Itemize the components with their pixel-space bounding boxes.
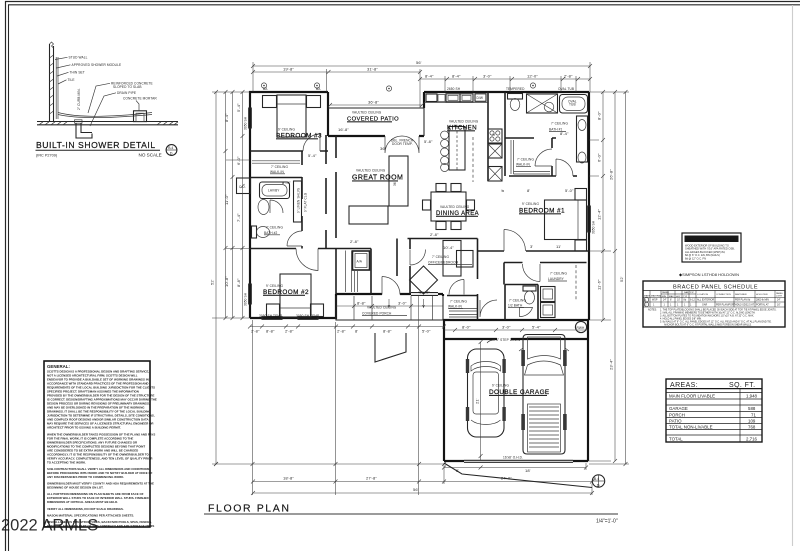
svg-text:BRACED WALL SCHEDULE: BRACED WALL SCHEDULE [686,238,736,242]
bath2 tub [260,182,290,199]
svg-text:8'-4": 8'-4" [452,74,461,79]
svg-text:8'-8": 8'-8" [357,301,366,306]
door arc laundry [523,264,541,282]
kitchen stools [441,131,449,172]
svg-text:VAULTED CEILING: VAULTED CEILING [356,169,386,173]
svg-text:THIN SET: THIN SET [70,71,85,75]
svg-text:21': 21' [475,398,480,404]
svg-text:PANEL: PANEL [662,291,670,294]
room label walkin1 [516,158,534,167]
dim left col mid [224,90,235,320]
svg-text:3'-0": 3'-0" [398,301,407,306]
label french door [391,139,414,146]
interior hall west wall [325,135,327,249]
svg-text:10'-8": 10'-8" [224,276,229,287]
office east wall [477,239,479,321]
svg-text:9' LINEN SHLVS: 9' LINEN SHLVS [297,188,301,213]
garage suv [466,349,506,437]
svg-text:3': 3' [530,244,533,249]
svg-text:8'-0": 8'-0" [597,111,602,120]
svg-text:ARCHITECT PRIOR TO ISSUING A B: ARCHITECT PRIOR TO ISSUING A BUILDING PE… [47,426,121,430]
french door arcs [385,136,419,153]
svg-text:WALK-IN: WALK-IN [448,305,462,309]
svg-text:8': 8' [527,188,530,193]
halfbath toilet [523,286,536,304]
svg-text:1/4"=1'-0": 1/4"=1'-0" [596,519,618,525]
door arc office [410,250,426,266]
svg-text:LOCATION: LOCATION [697,293,708,296]
svg-text:BRACED PANEL SCHEDULE: BRACED PANEL SCHEDULE [673,285,758,291]
svg-text:HOLDOWN: HOLDOWN [756,294,768,296]
bed bedroom3 [263,95,321,137]
office walkin wall [447,295,478,297]
svg-text:16'-8": 16'-8" [338,127,349,132]
svg-text:8'-4": 8'-4" [224,113,229,122]
driveway slope line [444,463,592,488]
svg-text:OVAL TUB: OVAL TUB [558,87,574,91]
office furniture rects [443,241,473,277]
room label garage [489,384,550,397]
dim row top overall [251,60,592,68]
office north wall [408,238,478,240]
kitchen sink [446,94,473,102]
svg-text:31'-8": 31'-8" [367,67,378,72]
svg-text:ANCHOR BOLTS AT 6" O.C. AT POR: ANCHOR BOLTS AT 6" O.C. AT PORTAL WALLS … [664,324,752,327]
kitchen dw [475,94,486,102]
svg-text:GAR: GAR [702,303,707,306]
svg-text:NAIL TOP: NAIL TOP [684,291,694,294]
garage interior dim [475,340,483,460]
svg-text:3'-0": 3'-0" [502,325,511,330]
svg-text:7' CEILING: 7' CEILING [271,165,288,169]
wall bedroom1 south [478,250,590,252]
svg-text:1/2 BATH: 1/2 BATH [508,304,523,308]
svg-text:7'-4": 7'-4" [236,213,241,222]
svg-text:7' CEILING: 7' CEILING [509,299,526,303]
svg-text:10': 10' [677,299,681,302]
svg-text:56': 56' [416,60,422,65]
door arc hall-porch [382,277,400,295]
svg-text:LGTH: LGTH [776,296,782,298]
svg-text:71: 71 [751,412,756,417]
room label bedroom3 [276,128,322,140]
dim row top third [418,74,592,82]
svg-text:BA: BA [263,87,268,91]
exterior wall kitchen top [424,91,589,93]
svg-text:18'-8": 18'-8" [283,476,294,481]
dim row top second [251,67,422,75]
svg-text:PANEL: PANEL [776,292,784,295]
svg-text:VAULTED CEILING: VAULTED CEILING [367,306,397,310]
window west wall upper [249,108,252,304]
svg-text:PATIO: PATIO [669,418,682,423]
dim bottom first row [214,462,446,466]
room label bath2 [264,226,283,235]
svg-text:PER PLAN/PORT: PER PLAN/PORT [716,303,736,306]
great room media wall [389,156,408,206]
shower detail stud wall [50,42,54,122]
svg-text:8'-4": 8'-4" [282,180,291,185]
room label bedroom1 [519,202,565,215]
svg-text:(IRC P2709): (IRC P2709) [36,154,58,158]
dim garage side row [444,325,589,333]
shower detail title [36,140,162,158]
svg-text:7' CEILING: 7' CEILING [550,272,567,276]
rwh water heater [575,321,586,332]
shower detail pan slope [58,113,152,118]
svg-text:5'-4": 5'-4" [308,153,317,158]
svg-text:11'-0": 11'-0" [224,194,229,205]
svg-text:2'-8": 2'-8" [350,239,359,244]
svg-text:BUILT-IN SHOWER DETAIL: BUILT-IN SHOWER DETAIL [36,140,156,150]
window bedroom2 south [262,317,318,320]
exterior wall east [588,92,590,320]
room label bedroom2 [263,284,309,296]
svg-text:FASTENER: FASTENER [735,293,747,296]
door arc bedroom2 [296,249,318,271]
svg-text:23'-4": 23'-4" [609,359,614,370]
svg-text:7' CEILING: 7' CEILING [517,158,534,162]
svg-text:CONNECTION: CONNECTION [716,294,731,296]
wall bedroom1 north [573,175,577,177]
dim left col inner [236,90,245,320]
svg-text:OFFICE/BEDROOM: OFFICE/BEDROOM [428,261,459,265]
svg-text:8': 8' [500,189,505,192]
exterior wall west and bedroom3 top [250,92,328,318]
svg-text:HDU2-SDS2.5 AT: HDU2-SDS2.5 AT [735,303,754,306]
svg-text:A/A: A/A [357,260,363,264]
svg-text:56': 56' [413,487,419,492]
office chair diamond [410,266,438,294]
patio dim line [328,100,424,108]
svg-text:2800 lb MIN: 2800 lb MIN [756,299,769,302]
closet column east wall [301,151,303,249]
interior wall bedroom2 north [250,249,371,295]
svg-text:8'-8": 8'-8" [236,278,241,287]
window notes [244,87,596,318]
shower detail curb [134,111,147,122]
svg-text:VAULTED CEILING: VAULTED CEILING [440,205,470,209]
washer dryer [541,287,556,318]
svg-text:3050 SH TEMP: 3050 SH TEMP [296,314,319,318]
wall bath1 south walkin north [505,138,556,176]
braced panel schedule table [643,281,785,327]
svg-text:5'-4": 5'-4" [532,325,541,330]
dim bottom garage row [442,466,588,474]
dim right col mid [609,90,618,463]
interior wall bedroom3 south [250,150,328,152]
svg-text:10'-4": 10'-4" [443,245,454,250]
dim left col outer [210,90,219,466]
svg-text:12'-0": 12'-0" [527,74,538,79]
wall behind patio with french door gap [328,135,424,137]
bed bedroom2 [267,274,324,317]
svg-text:VAULTED CEILING: VAULTED CEILING [449,120,479,124]
dim bottom overall row [251,487,594,495]
svg-text:3050 SH: 3050 SH [244,292,248,306]
garage door line [464,460,573,462]
sliding door segment [411,293,438,296]
dim row below south wall [248,325,446,334]
svg-text:11': 11' [556,244,561,249]
svg-text:ANY DISCREPANCIES PRIOR TO COM: ANY DISCREPANCIES PRIOR TO COMMENCING WO… [47,475,124,479]
bath1 toilet [508,94,523,111]
svg-text:26'-8": 26'-8" [609,169,614,180]
svg-text:TUB: TUB [569,103,576,107]
kitchen oven [488,144,502,158]
wall kitchen west jog [423,92,425,108]
svg-text:NO SCALE: NO SCALE [139,153,162,158]
kitchen island [449,127,465,171]
walkin3 shelves [252,161,300,163]
room label kitchen [447,120,479,132]
garage walls [444,320,588,461]
room label laundry [548,272,567,282]
svg-text:WSP: WSP [652,299,658,302]
svg-text:12'-4": 12'-4" [597,209,602,220]
walkin1 walls [509,138,556,176]
door arc bath2 [270,200,283,213]
wall patio left connector [327,92,329,136]
door arc bedroom1 [504,230,526,252]
wall hall vertical [396,239,398,277]
svg-text:9' CEILING: 9' CEILING [278,128,295,132]
svg-text:PER PLAN 8d: PER PLAN 8d [735,299,751,302]
svg-text:BA: BA [316,87,321,91]
linen closet [294,181,302,222]
areas table [666,379,762,442]
svg-text:7' CEILING: 7' CEILING [432,255,449,259]
room label covered patio [347,111,399,123]
svg-text:MIN: MIN [662,296,666,298]
window markers top wall [261,83,535,91]
walkin1 shelves [511,140,550,174]
kitchen cooktop [488,129,502,143]
svg-text:6-12: 6-12 [690,299,695,302]
porch posts [354,296,433,320]
svg-text:MATERIAL: MATERIAL [651,295,663,298]
door arc office walkin [449,280,464,295]
shower detail bubble [166,145,177,156]
svg-text:2'-8": 2'-8" [285,329,294,334]
office west wall [409,239,411,295]
dim left extension lines [212,92,250,464]
exterior wall porch back [336,293,411,295]
shower detail leader labels [55,56,157,127]
svg-text:588: 588 [748,406,756,411]
svg-text:LAV/BY: LAV/BY [268,189,280,193]
svg-text:9' FLAT CLG: 9' FLAT CLG [304,192,308,212]
svg-text:16'x8' O.H.D.: 16'x8' O.H.D. [503,456,523,460]
svg-text:2'-8": 2'-8" [430,232,439,237]
svg-text:MAX: MAX [669,295,674,298]
hall closet shelves [346,251,358,293]
dim right col inner [597,90,606,322]
room label walkin3 [270,165,288,174]
shower detail drain and p-trap [75,120,93,138]
svg-text:2650 SH: 2650 SH [447,87,461,91]
svg-text:TILE: TILE [68,78,75,82]
svg-text:AREAS:: AREAS: [670,382,698,389]
svg-text:6'-0": 6'-0" [597,153,602,162]
svg-text:8': 8' [355,329,358,334]
exterior wall bottom bedroom2 [250,294,336,318]
svg-text:5'-4": 5'-4" [236,103,241,112]
svg-text:2,716: 2,716 [746,437,758,442]
exterior wall office block [438,294,589,320]
svg-text:52': 52' [619,276,624,282]
svg-text:DRAIN PIPE: DRAIN PIPE [117,91,136,95]
bath2 toilet [252,226,270,238]
bath2 sink [258,200,269,215]
laundry north wall [504,263,587,285]
svg-text:36": 36" [380,146,387,151]
room label office walkin [448,300,467,309]
svg-text:2'-8": 2'-8" [564,74,573,79]
wall kitchen-bath divider [504,92,506,138]
svg-text:2022 ARMLS: 2022 ARMLS [1,517,98,535]
driveway step polygon [375,333,406,362]
svg-text:APPROVED SHOWER MODULE: APPROVED SHOWER MODULE [72,63,122,67]
svg-text:3050 SH TEMP: 3050 SH TEMP [259,314,282,318]
room label great room [352,169,403,182]
svg-text:WALK-IN: WALK-IN [516,163,530,167]
svg-text:8'-8": 8'-8" [266,329,275,334]
svg-text:52': 52' [210,279,215,285]
bath1 tub [560,95,588,114]
door arc bedroom1 entry [556,159,573,176]
cu unit [237,178,251,194]
svg-text:9' CEILING: 9' CEILING [492,384,509,388]
svg-text:TOTAL NON-LIVABLE: TOTAL NON-LIVABLE [669,424,713,429]
bath1 shower [527,94,558,113]
porch swing arrows [388,299,425,308]
svg-text:768: 768 [748,424,756,429]
room label covered porch [362,306,407,316]
svg-text:9' CEILING: 9' CEILING [266,284,283,288]
covered porch outline [336,296,443,320]
svg-text:D/W: D/W [477,96,484,100]
svg-text:5': 5' [491,133,496,136]
kitchen corner cabinets [426,94,445,102]
svg-text:RWH: RWH [577,326,585,330]
general notes box [44,361,157,528]
room label office [428,255,472,265]
dim right col outer [619,90,628,466]
svg-text:2" CURB MIN.: 2" CURB MIN. [77,88,81,110]
interior small dims [282,127,574,250]
svg-text:TEMPERED: TEMPERED [506,87,525,91]
door arc bedroom3 [303,134,320,151]
office walkin shelves [449,309,477,318]
svg-text:D: D [597,482,600,487]
svg-text:MAIN FLOOR LIVABLE: MAIN FLOOR LIVABLE [669,394,715,399]
wall kitchen east [487,92,489,181]
svg-text:8'-4": 8'-4" [425,74,434,79]
halfbath sink [520,308,533,317]
shower detail tile layer [56,57,58,119]
door arc walkin1 [535,149,552,166]
dining ceiling break dashed [472,137,474,182]
shower detail slab [37,122,178,125]
dim right extension lines [588,92,629,464]
svg-text:36: 36 [393,182,397,186]
interior wall walkin3 south [250,177,302,179]
svg-text:7' CEILING: 7' CEILING [266,226,283,230]
garage truck [519,335,569,455]
svg-text:7' CEILING: 7' CEILING [450,300,467,304]
svg-text:GARAGE: GARAGE [669,406,688,411]
svg-text:11'-6": 11'-6" [597,279,602,290]
braced wall notes box [682,233,741,262]
great room rug [349,206,388,224]
kitchen top counter [424,102,488,104]
svg-text:B.4: B.4 [594,477,599,481]
svg-text:4" STEP DOWN: 4" STEP DOWN [496,338,521,342]
svg-text:BEGINNING OF HOUSE DESIGN ON L: BEGINNING OF HOUSE DESIGN ON LOT. [47,486,104,490]
svg-text:WALK-IN: WALK-IN [270,170,284,174]
svg-text:DIMENSIONS AT CRITICAL AREAS M: DIMENSIONS AT CRITICAL AREAS MUST BE HEL… [47,500,118,504]
section bubble bottom right [592,475,604,488]
svg-text:FLOOR PLAN: FLOOR PLAN [208,503,291,515]
porch dim row [336,301,443,309]
svg-text:8'-0": 8'-0" [462,325,471,330]
svg-text:VAULTED CEILING: VAULTED CEILING [352,111,382,115]
svg-text:COVERED PORCH: COVERED PORCH [362,312,392,316]
room label halfbath [508,299,526,308]
svg-text:19'-8": 19'-8" [283,67,294,72]
window bedroom1 east [588,206,591,232]
svg-text:PORCH: PORCH [669,412,685,417]
svg-text:◆SIMPSON LSTHD8 HOLDOWN: ◆SIMPSON LSTHD8 HOLDOWN [679,272,739,277]
svg-text:MARK: MARK [644,295,651,298]
dim bottom extension lines [253,296,593,495]
svg-text:8'-4": 8'-4" [560,131,569,136]
svg-text:VERIFY ALL DIMENSIONS, DO NOT: VERIFY ALL DIMENSIONS, DO NOT SCALE DRAW… [47,507,124,511]
svg-text:TOTAL: TOTAL [669,437,683,442]
step down note [487,338,521,343]
svg-text:TYP: TYP [683,296,688,298]
room label dining [436,205,479,217]
svg-text:TO ACCEPTING THE WORK.: TO ACCEPTING THE WORK. [47,460,86,464]
svg-text:3050 SH: 3050 SH [592,220,596,234]
dim bottom second row [251,476,594,484]
bed bedroom1 [545,189,587,252]
svg-text:36'-8": 36'-8" [368,100,379,105]
floor plan title [204,503,618,525]
svg-text:8'-8": 8'-8" [383,329,392,334]
svg-text:B.4: B.4 [168,146,173,150]
room label bath1 [549,122,568,132]
bath1 vanity [577,116,588,163]
svg-text:DOOR TEMP.: DOOR TEMP. [392,142,413,146]
svg-text:42"x42": 42"x42" [418,291,430,295]
svg-text:27'-8": 27'-8" [366,476,377,481]
svg-text:3050 SH: 3050 SH [244,116,248,130]
svg-text:SLOPED TO SLAB: SLOPED TO SLAB [113,85,142,89]
svg-text:BATH #2: BATH #2 [264,231,278,235]
svg-text:PORTAL AT: PORTAL AT [756,303,769,306]
svg-text:3'-0": 3'-0" [483,74,492,79]
svg-text:109: 109 [748,418,756,423]
svg-text:CONCRETE MORTAR: CONCRETE MORTAR [123,97,157,101]
svg-text:9' CEILING: 9' CEILING [522,202,539,206]
svg-text:24": 24" [777,299,781,302]
dim top extension lines [253,62,590,108]
svg-text:D: D [170,152,173,156]
door arc bath2 entry [287,231,302,246]
svg-text:ALL EXTERIOR: ALL EXTERIOR [697,299,714,302]
